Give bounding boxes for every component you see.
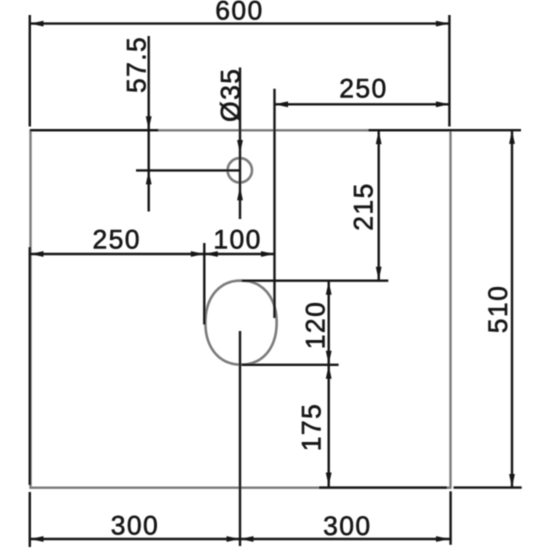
right ext below corner (300)	[449, 491, 451, 545]
arrow 215 down	[376, 267, 382, 281]
dimension line 120	[328, 281, 330, 365]
dimension line 215	[378, 131, 380, 281]
dimension line d35	[239, 68, 241, 220]
oval bottom tangent line	[242, 364, 339, 366]
dimension line 250 mid	[30, 253, 204, 255]
dimension line 100	[204, 253, 274, 255]
arrow 600 left	[30, 21, 44, 27]
extension line x=274 (250/100)	[273, 89, 275, 318]
dimension line 57.5	[147, 36, 149, 212]
arrow 250 right	[436, 101, 450, 107]
bottom ext to 510	[454, 486, 522, 488]
extension line x=204	[203, 243, 205, 325]
arrow 250mid right	[191, 251, 205, 257]
svg-text:Ø35: Ø35	[215, 68, 245, 122]
panel outline (600x510 top)	[31, 130, 451, 487]
svg-text:250: 250	[339, 74, 387, 104]
svg-text:57.5: 57.5	[122, 36, 152, 93]
arrow 120 up	[326, 281, 332, 295]
bottom edge overlay	[319, 486, 447, 488]
arrow 300a right	[227, 536, 241, 542]
svg-text:250: 250	[92, 224, 140, 254]
dimension line 175	[328, 365, 330, 487]
arrow 510 down	[509, 474, 515, 488]
faucet hole d35	[228, 158, 252, 182]
arrow 100 left	[204, 251, 218, 257]
svg-text:600: 600	[215, 0, 263, 26]
svg-text:120: 120	[301, 301, 331, 349]
svg-text:175: 175	[297, 403, 327, 451]
hole centreline horizontal	[136, 169, 240, 171]
arrow 600 right	[436, 21, 450, 27]
dimension line 510	[511, 131, 513, 487]
arrow 175 up	[326, 365, 332, 379]
arrow 250 left	[275, 101, 289, 107]
arrow 175 down	[326, 473, 332, 487]
top edge overlay left	[30, 129, 158, 131]
extension line right (600/250)	[448, 15, 450, 127]
arrow 57.5 down	[146, 116, 152, 130]
basin cutout oval	[205, 281, 276, 365]
arrow 120 down	[326, 351, 332, 365]
svg-text:300: 300	[323, 511, 371, 541]
dimension line 250 top	[275, 103, 450, 105]
dimension line 300+300	[30, 538, 450, 540]
arrow 250mid left	[30, 251, 44, 257]
left edge overlay	[29, 247, 31, 485]
centreline / extension x=240	[239, 331, 241, 546]
svg-text:300: 300	[111, 511, 159, 541]
extension line left (600)	[29, 15, 31, 127]
arrow 100 right	[261, 251, 275, 257]
oval top tangent line	[242, 280, 388, 282]
top edge overlay right / 510 ext	[368, 129, 521, 131]
arrow d35 up	[237, 187, 243, 201]
arrow 57.5 up	[146, 171, 152, 185]
dimension line 600	[30, 22, 449, 24]
arrow 300b left	[240, 536, 254, 542]
svg-text:510: 510	[483, 285, 513, 333]
svg-text:100: 100	[213, 225, 261, 255]
arrow 215 up	[376, 131, 382, 145]
svg-text:215: 215	[349, 182, 379, 230]
arrow d35 down	[237, 140, 243, 154]
arrow 300a left	[30, 536, 44, 542]
left ext below corner (300)	[29, 492, 31, 547]
arrow 300b right	[436, 536, 450, 542]
arrow 510 up	[509, 130, 515, 144]
